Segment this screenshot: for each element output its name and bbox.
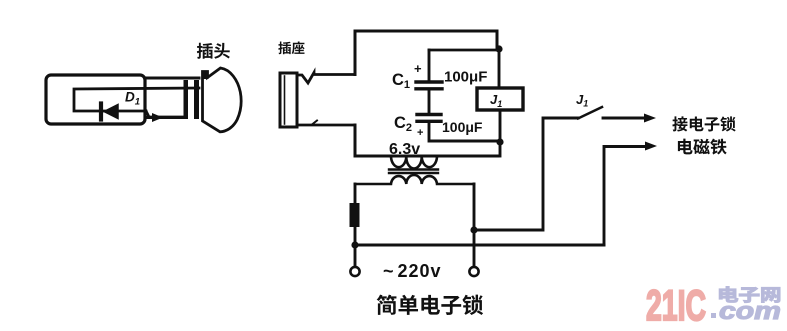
- svg-text:~220v: ~220v: [383, 261, 442, 281]
- svg-text:J1: J1: [490, 92, 502, 109]
- svg-text:6.3v: 6.3v: [389, 141, 420, 158]
- svg-text:100μF: 100μF: [444, 69, 487, 86]
- svg-text:com: com: [719, 298, 781, 325]
- svg-text:J1: J1: [576, 92, 588, 109]
- svg-text:21IC: 21IC: [646, 282, 706, 330]
- svg-text:C2: C2: [394, 114, 412, 134]
- svg-text:100μF: 100μF: [442, 119, 483, 135]
- svg-text:C1: C1: [392, 71, 410, 91]
- svg-text:D1: D1: [125, 90, 140, 108]
- svg-text:+: +: [414, 61, 422, 76]
- svg-text:+: +: [417, 127, 423, 139]
